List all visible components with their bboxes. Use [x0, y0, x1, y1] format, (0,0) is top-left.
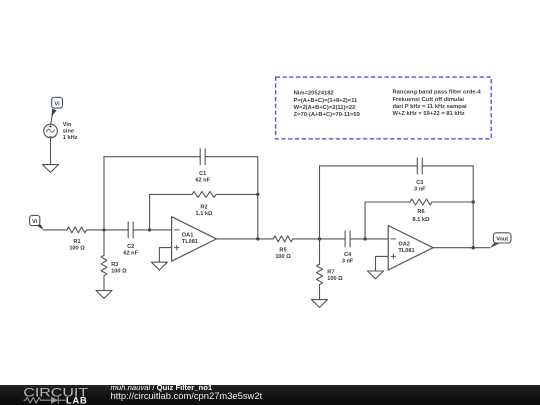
svg-text:8.1 kΩ: 8.1 kΩ — [413, 217, 430, 223]
svg-text:Vi: Vi — [55, 101, 61, 107]
wire junction up to C3 rail — [319, 166, 321, 239]
capacitor C2 — [123, 222, 138, 257]
wire R6 to output vertical — [432, 201, 473, 203]
wire C3 top rail — [320, 166, 474, 248]
node Vi input flag — [30, 215, 44, 230]
annotation box (blue dashed) — [276, 77, 492, 139]
op-amp OA1 — [172, 217, 217, 262]
wire junction up to C1 rail — [103, 157, 105, 230]
svg-text:1.1 kΩ: 1.1 kΩ — [196, 211, 213, 217]
junction feedback node — [148, 228, 151, 231]
wire OA2 output to Vout — [433, 247, 490, 249]
svg-text:Frekuensi Cutt off dimulai: Frekuensi Cutt off dimulai — [393, 97, 465, 103]
footer bar — [0, 385, 540, 405]
svg-text:C3: C3 — [416, 180, 423, 186]
resistor R6 — [410, 199, 432, 223]
svg-text:dari P kHz = 11 kHz sampai: dari P kHz = 11 kHz sampai — [393, 104, 468, 110]
svg-text:P=(A+B+C)=(1+8+2)=11: P=(A+B+C)=(1+8+2)=11 — [294, 98, 358, 104]
node Vout flag — [490, 233, 511, 248]
wire R1 to C2 — [87, 229, 129, 231]
wire junction down to R7 — [319, 239, 321, 264]
svg-text:3 nF: 3 nF — [342, 259, 354, 265]
svg-text:OA1: OA1 — [182, 233, 194, 239]
resistor R1 — [67, 227, 87, 252]
junction OA1 output — [256, 237, 259, 240]
svg-text:OA2: OA2 — [398, 241, 410, 247]
svg-text:R5: R5 — [279, 247, 286, 253]
ground (OA2 plus) — [368, 271, 384, 279]
svg-text:1 kHz: 1 kHz — [63, 135, 78, 141]
wire source to ground — [50, 138, 52, 165]
node Vi flag at source top — [51, 97, 63, 124]
svg-text:C2: C2 — [127, 244, 134, 250]
svg-text:Z=70-(A+B+C)=70-11=59: Z=70-(A+B+C)=70-11=59 — [294, 112, 361, 118]
wire C4 to OA2 minus — [350, 238, 388, 240]
wire OA2 plus to ground — [376, 256, 389, 271]
ground (R3) — [96, 291, 112, 299]
svg-text:Vout: Vout — [496, 236, 508, 242]
wire C1 top rail — [104, 157, 258, 239]
ground (OA1 plus) — [151, 262, 167, 270]
svg-text:Nim=20524182: Nim=20524182 — [294, 91, 334, 97]
wire OA1 output — [217, 238, 274, 240]
svg-text:100 Ω: 100 Ω — [327, 276, 343, 282]
wire R3 to ground — [103, 276, 105, 291]
svg-text:R1: R1 — [73, 239, 80, 245]
svg-text:3 nF: 3 nF — [414, 187, 426, 193]
wire R2 to output vertical — [216, 193, 258, 195]
wire Vi to R1 — [43, 229, 67, 231]
junction OA2 output — [472, 246, 475, 249]
svg-text:C4: C4 — [344, 252, 352, 258]
svg-text:R6: R6 — [417, 209, 424, 215]
op-amp OA2 — [388, 226, 433, 271]
svg-text:R7: R7 — [327, 270, 334, 276]
resistor R3 — [101, 255, 127, 275]
svg-text:100 Ω: 100 Ω — [111, 268, 127, 274]
svg-text:LAB: LAB — [66, 395, 88, 405]
junction R2 output — [256, 193, 259, 196]
wire junction down to R3 — [103, 230, 105, 255]
svg-text:TL081: TL081 — [182, 239, 198, 245]
svg-text:Vi: Vi — [32, 219, 38, 225]
svg-text:62 nF: 62 nF — [195, 178, 210, 184]
wire C2 to OA1 minus — [133, 229, 171, 231]
svg-text:62 nF: 62 nF — [123, 251, 138, 257]
capacitor C3 — [414, 158, 426, 193]
junction feedback node 2 — [363, 237, 366, 240]
junction node A — [102, 228, 105, 231]
svg-text:sine: sine — [63, 128, 74, 134]
ground (R7) — [312, 300, 328, 308]
svg-text:100 Ω: 100 Ω — [275, 254, 291, 260]
wire OA1 plus to ground — [159, 248, 171, 263]
svg-text:Rancang band pass filter orde-: Rancang band pass filter orde-4 — [393, 90, 482, 96]
svg-text:TL081: TL081 — [398, 248, 414, 254]
wire feedback up to R6 — [365, 202, 410, 239]
wire feedback up to R2 — [150, 194, 192, 230]
svg-text:Vin: Vin — [63, 122, 72, 128]
ground (source) — [43, 165, 59, 173]
wire R5 to C4 — [293, 238, 345, 240]
footer text — [111, 384, 263, 402]
wire R7 to ground — [319, 285, 321, 300]
svg-text:W=2(A+B+C)=2(11)=22: W=2(A+B+C)=2(11)=22 — [294, 105, 356, 111]
resistor R7 — [317, 264, 344, 285]
svg-text:W+Z kHz = 59+22 = 81 kHz: W+Z kHz = 59+22 = 81 kHz — [393, 111, 465, 117]
resistor R2 — [192, 191, 216, 217]
junction stage2 node — [318, 237, 321, 240]
svg-text:C1: C1 — [199, 171, 206, 177]
capacitor C1 — [195, 149, 210, 184]
svg-text:R3: R3 — [111, 262, 118, 268]
capacitor C4 — [342, 231, 354, 265]
CircuitLab logo — [0, 385, 110, 405]
svg-text:100 Ω: 100 Ω — [69, 246, 85, 252]
voltage source V1 Vin sine 1 kHz — [44, 122, 78, 141]
resistor R5 — [273, 236, 293, 260]
junction R6 output — [472, 200, 475, 203]
svg-text:R2: R2 — [200, 204, 207, 210]
